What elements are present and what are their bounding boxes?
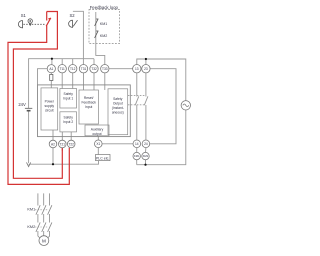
svg-text:Safety: Safety	[113, 97, 123, 101]
svg-text:Power: Power	[45, 100, 55, 104]
svg-text:A1: A1	[49, 67, 53, 71]
svg-text:KM2: KM2	[143, 154, 149, 158]
svg-text:output: output	[92, 132, 101, 136]
svg-text:23: 23	[144, 67, 148, 71]
svg-text:KM1: KM1	[27, 208, 35, 212]
svg-text:Auxiliary: Auxiliary	[91, 127, 104, 131]
svg-text:S1: S1	[21, 13, 27, 18]
svg-text:14: 14	[135, 142, 139, 146]
svg-text:X1: X1	[96, 142, 100, 146]
svg-text:circuit: circuit	[45, 109, 54, 113]
svg-text:T21: T21	[60, 142, 66, 146]
svg-text:T31: T31	[81, 67, 87, 71]
svg-text:T33: T33	[102, 67, 108, 71]
svg-text:PLC etc.: PLC etc.	[96, 156, 109, 160]
svg-text:KM1: KM1	[100, 22, 107, 26]
svg-text:Input: Input	[85, 105, 92, 109]
svg-text:Input 2: Input 2	[63, 120, 73, 124]
svg-text:aneous): aneous)	[112, 110, 124, 114]
svg-text:M: M	[42, 239, 46, 244]
svg-text:T11: T11	[60, 67, 65, 71]
svg-text:24: 24	[144, 142, 148, 146]
svg-text:Output: Output	[113, 101, 123, 105]
svg-text:T12: T12	[70, 67, 76, 71]
svg-text:S2: S2	[69, 13, 75, 18]
svg-text:T32: T32	[91, 67, 97, 71]
svg-text:Feedback: Feedback	[81, 101, 96, 105]
svg-text:13: 13	[135, 67, 139, 71]
svg-text:(Instant-: (Instant-	[112, 106, 124, 110]
svg-text:T22: T22	[68, 142, 74, 146]
svg-text:supply: supply	[45, 104, 55, 108]
svg-text:24V: 24V	[18, 102, 26, 107]
svg-text:KM2: KM2	[100, 34, 107, 38]
svg-text:Input 1: Input 1	[63, 97, 73, 101]
svg-text:Feedback loop: Feedback loop	[90, 5, 119, 10]
svg-text:KM2: KM2	[27, 225, 35, 229]
svg-text:Safety: Safety	[64, 116, 74, 120]
svg-text:Reset/: Reset/	[84, 96, 94, 100]
svg-text:Safety: Safety	[64, 92, 74, 96]
svg-text:A2: A2	[51, 142, 55, 146]
svg-text:KM1: KM1	[134, 154, 140, 158]
